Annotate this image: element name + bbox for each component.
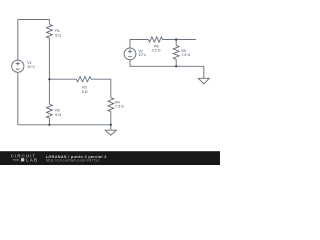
svg-text:R2: R2	[55, 108, 60, 112]
wire to right ground	[176, 66, 204, 78]
wire R2 top lead	[48, 79, 50, 104]
wire R2 bottom lead	[48, 118, 50, 125]
ground right	[198, 78, 209, 84]
svg-text:20 V: 20 V	[27, 65, 35, 69]
wire R6 to right stub	[163, 39, 197, 41]
ground left	[105, 125, 116, 135]
svg-text:http://circuitlab.com/c47fxz: http://circuitlab.com/c47fxz	[46, 159, 100, 163]
svg-text:5 Ω: 5 Ω	[55, 113, 61, 117]
svg-text:2.5 Ω: 2.5 Ω	[152, 49, 161, 53]
junction dot ground left	[110, 124, 112, 126]
wire R4 bottom lead	[110, 112, 112, 125]
wire node A to R3	[49, 78, 76, 80]
svg-text:5 Ω: 5 Ω	[55, 33, 61, 37]
watermark bar	[0, 151, 220, 165]
resistor R5	[173, 45, 179, 59]
junction dot R5 top	[175, 38, 177, 40]
resistor R4	[108, 98, 114, 112]
svg-text:7.5 Ω: 7.5 Ω	[181, 53, 190, 57]
logo LAB	[13, 160, 20, 161]
wire R5 bottom lead	[175, 59, 177, 66]
node A junction dot	[48, 78, 50, 80]
svg-text:5 Ω: 5 Ω	[82, 90, 88, 94]
svg-text:R4: R4	[115, 100, 120, 104]
resistor R1	[47, 24, 53, 38]
wire R1 bottom to node A	[48, 38, 50, 79]
wire top rail left circuit	[18, 19, 50, 21]
svg-text:10 V: 10 V	[138, 53, 146, 57]
svg-text:R1: R1	[55, 29, 60, 33]
svg-text:7.5 Ω: 7.5 Ω	[115, 105, 124, 109]
svg-text:LAB: LAB	[26, 157, 38, 162]
junction dot R5 bottom	[175, 65, 177, 67]
resistor R2	[47, 104, 53, 118]
wire bottom rail	[18, 124, 111, 126]
wire R3 to R4 corner	[91, 79, 111, 98]
wire V2 top lead	[130, 40, 148, 49]
wire R1 top lead	[48, 20, 50, 25]
svg-text:R3: R3	[82, 85, 87, 89]
wire R5 top lead	[175, 40, 177, 46]
voltage source V1	[12, 60, 24, 72]
resistor R6	[148, 37, 162, 42]
voltage source V2	[124, 48, 136, 60]
wire V2 bottom lead	[130, 60, 176, 67]
wire V1 top lead	[17, 20, 19, 61]
resistor R3	[76, 77, 91, 82]
wire V1 bottom lead	[17, 72, 19, 125]
junction dot R2 bottom	[48, 124, 50, 126]
